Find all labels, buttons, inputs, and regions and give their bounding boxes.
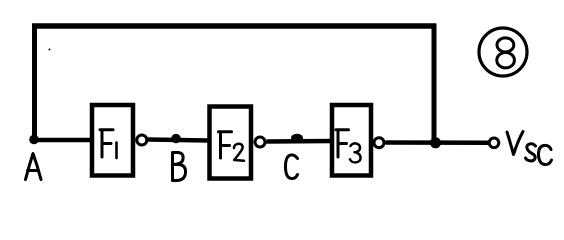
wire: feedback loop left vertical [32, 24, 37, 140]
speck (scan noise) [49, 49, 51, 51]
label C [286, 155, 298, 179]
node A [29, 135, 39, 145]
label Vsc [507, 132, 552, 165]
wire: F2 output to F3 input [267, 139, 333, 144]
block F3 [332, 105, 371, 176]
figure number 8 [497, 38, 514, 52]
node C [291, 134, 303, 143]
block F2 [210, 107, 252, 179]
label A [26, 154, 42, 180]
label F2 [219, 132, 232, 158]
wire: node A to F1 input [32, 138, 92, 143]
label F1 [100, 130, 113, 157]
output circle of F2 [255, 137, 265, 147]
wire: F3 output to Vsc terminal [386, 140, 489, 145]
wire: feedback loop top horizontal [32, 23, 436, 29]
output circle of F3 [374, 138, 384, 148]
figure number circle [479, 28, 527, 76]
label F3 [336, 130, 349, 157]
terminal Vsc open circle [489, 138, 499, 148]
block F1 [92, 105, 133, 176]
wire: feedback loop right vertical [432, 24, 437, 143]
node: junction of feedback with output wire [430, 137, 441, 148]
wire: F1 output to F2 input [148, 140, 209, 141]
label B [173, 153, 186, 181]
node B [171, 134, 181, 144]
output circle of F1 [137, 135, 147, 145]
